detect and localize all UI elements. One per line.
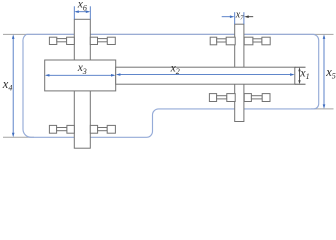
bearing bolt bottom-left west [49, 125, 74, 133]
vertical shaft left [74, 19, 90, 148]
gray extension line top (full width) [3, 33, 334, 35]
gray extension line bottom-left [3, 136, 34, 138]
dimension x7 right arrow (black) [244, 15, 253, 18]
dimension x1 terminals (black) [295, 67, 306, 84]
vertical shaft right (under bar) [235, 24, 244, 121]
horizontal bar shaft [116, 67, 295, 84]
dimension x2 [116, 73, 295, 76]
bearing bolt bottom-right east [244, 94, 270, 102]
dimension x6 extension lines [74, 6, 90, 19]
dimension x7 left arrow (blue) [222, 15, 235, 18]
dimension x7 extension lines [235, 12, 244, 24]
bearing bolt top-left east [90, 37, 115, 44]
gear block (big rectangle) [45, 60, 116, 91]
bearing bolt bottom-left east [90, 125, 115, 133]
bearing bolt bottom-right west [209, 94, 235, 102]
housing contour (light blue rounded outline with step) [23, 34, 319, 137]
dimension x1 line and arrows (black) [298, 67, 300, 84]
dimension x3 [45, 74, 116, 77]
dimension x4 line [12, 34, 15, 137]
gray extension line bottom-right [311, 108, 334, 110]
dimension x5 line [323, 34, 326, 109]
bearing bolt top-right east [244, 37, 270, 45]
dimension x6 arrows [74, 10, 90, 13]
bearing bolt top-right west [210, 37, 235, 45]
bearing bolt top-left west [49, 37, 74, 44]
